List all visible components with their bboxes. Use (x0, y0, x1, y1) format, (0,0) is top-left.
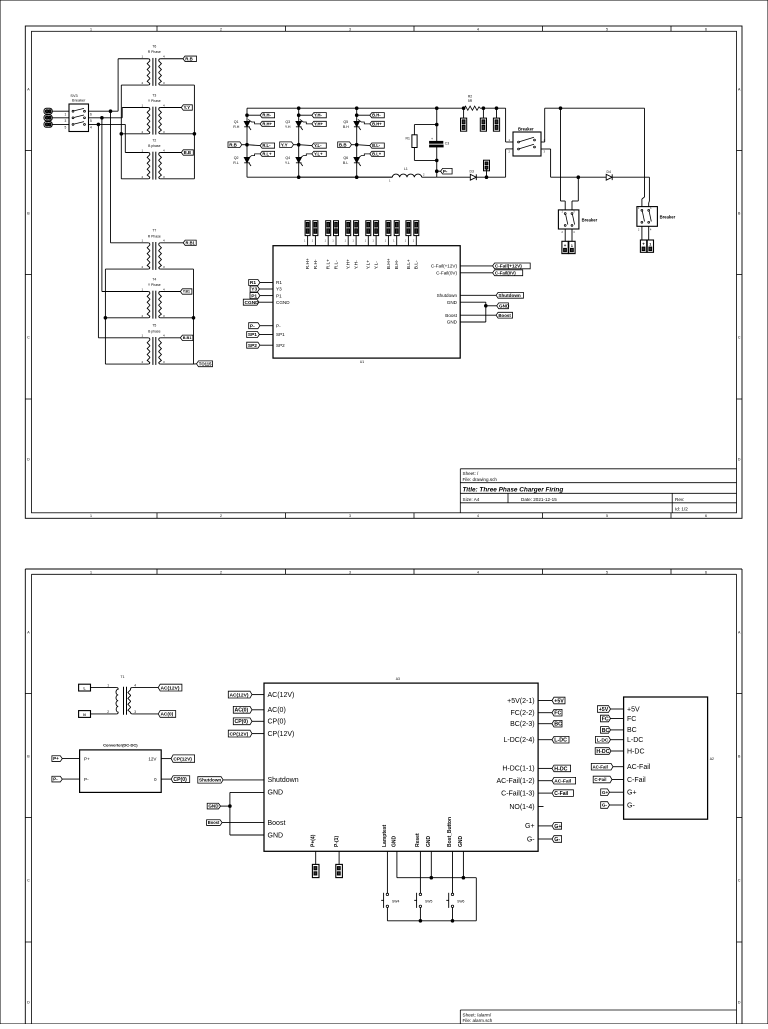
global label SP1 to U1 (247, 332, 260, 338)
svg-text:CP(12V): CP(12V) (268, 731, 295, 738)
global label Shutdown (496, 292, 523, 298)
svg-text:AC-Fail(1-2): AC-Fail(1-2) (496, 778, 534, 785)
connector above U1 pin B.L+ (406, 221, 411, 236)
global label G+ to A2 (601, 789, 610, 796)
global label R1 to U1 (249, 280, 260, 286)
svg-text:P-: P- (250, 323, 255, 329)
svg-text:FC: FC (602, 716, 609, 722)
svg-text:Y.Y: Y.Y (184, 105, 191, 110)
svg-text:4: 4 (477, 514, 479, 518)
wire bank2 left vertical (104, 269, 106, 364)
wire bridge rail B middle (356, 127, 358, 157)
svg-text:5: 5 (90, 119, 92, 123)
svg-text:12V: 12V (148, 756, 157, 761)
svg-text:SP1: SP1 (276, 332, 285, 337)
global label G- to A2 (601, 802, 610, 809)
svg-text:SW6: SW6 (457, 899, 464, 903)
svg-text:Rev:: Rev: (675, 497, 684, 502)
svg-text:SP2: SP2 (248, 343, 257, 349)
svg-text:D: D (27, 457, 30, 461)
wire CB2 out top (541, 141, 545, 143)
wire bank1 left vertical (120, 85, 122, 179)
wire bridge rail R upper (246, 108, 248, 121)
svg-text:L1: L1 (404, 167, 408, 171)
hier label R phase input (228, 142, 242, 148)
wire T6 pin4 to label (160, 58, 183, 60)
svg-text:Shutdown: Shutdown (199, 778, 221, 783)
connector battery B1- (569, 241, 575, 253)
wire DC- through D4 (578, 176, 606, 178)
switch SW6 (451, 893, 453, 895)
svg-text:R2: R2 (468, 94, 472, 98)
svg-text:P-(1): P-(1) (334, 836, 340, 847)
svg-text:Converter(DC-DC): Converter(DC-DC) (103, 743, 138, 748)
connector above U1 pin Y.H+ (346, 221, 351, 236)
wire D3 to connector node (476, 176, 505, 178)
wire Y input to breaker (52, 117, 69, 119)
wire bank2 right vertical (193, 269, 195, 364)
svg-text:D3: D3 (470, 170, 474, 174)
global label CGND to U1 (243, 299, 259, 305)
svg-text:BC: BC (627, 727, 637, 734)
svg-text:3: 3 (349, 570, 351, 574)
svg-text:B phase: B phase (148, 329, 161, 333)
svg-text:R1: R1 (406, 137, 410, 141)
svg-text:6: 6 (705, 570, 707, 574)
svg-text:GND: GND (499, 303, 510, 308)
svg-text:Y.Y: Y.Y (281, 142, 288, 147)
svg-text:4: 4 (477, 27, 479, 31)
svg-text:File: alarm.sch: File: alarm.sch (463, 1018, 493, 1023)
svg-text:C-Fail: C-Fail (554, 791, 569, 797)
hier label R.L+ gate (248, 154, 260, 158)
global label H-DC from A3 (552, 765, 571, 772)
svg-text:6: 6 (705, 514, 707, 518)
svg-text:SW5: SW5 (425, 899, 432, 903)
svg-text:5: 5 (65, 126, 67, 130)
svg-text:T6: T6 (152, 45, 156, 49)
svg-text:BC(2-3): BC(2-3) (510, 721, 535, 728)
svg-text:GND: GND (447, 300, 458, 305)
svg-text:NO(1-4): NO(1-4) (509, 804, 534, 811)
wire Y.L- connector to U1 (375, 236, 377, 246)
svg-text:Y.L+: Y.L+ (366, 260, 372, 270)
wire B phase down to T2 (124, 124, 126, 152)
wire bottom bus to L1 (357, 176, 393, 178)
svg-text:C-Fail(+12V): C-Fail(+12V) (431, 264, 458, 269)
capacitor C3 (436, 125, 438, 142)
svg-text:R.L+: R.L+ (262, 151, 272, 156)
svg-text:AC(0): AC(0) (235, 708, 249, 714)
svg-text:+5V: +5V (627, 706, 640, 713)
hier label Y.L+ gate (300, 154, 312, 158)
wire top bus R2 to J6 (483, 107, 506, 109)
svg-text:P+: P+ (84, 756, 90, 761)
sheet 2 title block (460, 1009, 736, 1011)
svg-text:3: 3 (349, 514, 351, 518)
svg-text:G+: G+ (602, 790, 609, 795)
svg-text:Lamptest: Lamptest (382, 824, 388, 847)
svg-text:P+: P+ (53, 756, 59, 761)
connector N input (79, 711, 91, 718)
wire T6 pin1 (118, 58, 148, 60)
wire T4 pin4 to label (160, 291, 180, 293)
svg-text:Boost: Boost (445, 313, 457, 318)
svg-text:5: 5 (606, 27, 608, 31)
wire DC- to CB3 (577, 176, 580, 179)
wire switch bottom bus (387, 920, 476, 922)
wire bridge rail R middle (246, 127, 248, 157)
svg-text:D: D (738, 457, 741, 461)
svg-text:B.L+: B.L+ (372, 151, 382, 156)
hier label B.L- gate return (357, 144, 370, 147)
global label H-DC to A2 (595, 748, 611, 755)
wire R phase from breaker (89, 110, 119, 112)
svg-text:GND: GND (447, 320, 458, 325)
svg-text:Q1: Q1 (234, 120, 239, 124)
wire B input to breaker (52, 123, 69, 125)
wire T3 pin4 to label (160, 107, 181, 109)
svg-text:C: C (738, 878, 741, 882)
svg-text:CP(0): CP(0) (173, 777, 187, 783)
connector above U1 pin R.H- (313, 221, 318, 236)
global label GND (497, 303, 509, 309)
svg-text:G+: G+ (554, 824, 561, 830)
connector above U1 pin B.H+ (386, 221, 391, 236)
svg-text:+5V(2-1): +5V(2-1) (507, 698, 534, 705)
wire bridge rail R lower (246, 163, 248, 177)
thyristor Q6 (354, 157, 360, 162)
sheet 1 border frame (25, 26, 742, 518)
svg-text:Shutdown: Shutdown (437, 293, 458, 298)
svg-text:T1: T1 (121, 675, 125, 679)
svg-text:AC(0): AC(0) (161, 712, 174, 718)
svg-text:R.H-: R.H- (313, 259, 319, 269)
wire DC- down to CB4 (648, 177, 650, 201)
svg-text:3: 3 (349, 27, 351, 31)
wire C3 branch from top bus (436, 108, 438, 124)
wire T7 pin1 (111, 242, 149, 244)
connector above U1 pin Y.H- (354, 221, 359, 236)
global label AC(12V) out (158, 684, 182, 691)
hier label B.H+ gate (358, 119, 370, 124)
global label Y3 to U1 (250, 286, 259, 292)
svg-text:B.B1: B.B1 (183, 335, 193, 340)
global label AC-Fail from A3 (552, 777, 576, 784)
wire SW5 to bus (419, 908, 421, 921)
connector above U1 pin Y.L- (374, 221, 379, 236)
svg-text:C-Fail: C-Fail (594, 777, 606, 782)
svg-text:P-: P- (84, 777, 89, 782)
annunciator block A2 (624, 697, 708, 819)
wire 12V out (161, 758, 171, 760)
wire R input to breaker (52, 110, 69, 112)
hier label R.L- gate return (247, 144, 260, 147)
svg-text:Date: 2021-12-15: Date: 2021-12-15 (521, 497, 557, 502)
wire bridge rail B upper (356, 108, 358, 121)
svg-text:Y3: Y3 (251, 287, 257, 293)
wire B phase down to T5 (97, 124, 99, 337)
wire R.H+ connector to U1 (307, 236, 309, 246)
svg-text:GND: GND (392, 836, 398, 848)
svg-text:CP(12V): CP(12V) (173, 756, 192, 762)
wire T2 pin4 to label (160, 152, 181, 154)
svg-text:SP2: SP2 (276, 343, 285, 348)
firing block U1 (273, 246, 460, 358)
svg-text:B.L-: B.L- (414, 260, 420, 269)
svg-text:P-: P- (53, 777, 58, 782)
svg-text:Breaker: Breaker (582, 218, 598, 223)
svg-text:T7: T7 (152, 229, 156, 233)
wire D4 to CB4 branch (612, 176, 649, 178)
svg-text:GND: GND (208, 804, 219, 809)
svg-text:G+: G+ (627, 790, 637, 797)
svg-text:TO115: TO115 (199, 361, 212, 366)
wire DC- bottom bus (247, 176, 392, 178)
wire L to T1 pin1 (91, 687, 117, 689)
wire R.H- connector to U1 (314, 236, 316, 246)
svg-text:Q4: Q4 (285, 156, 290, 160)
svg-text:Shutdown: Shutdown (268, 777, 299, 784)
connector J7 above D3 (486, 169, 488, 177)
wire DC- up to breaker CB2 (505, 149, 507, 177)
svg-text:G-: G- (527, 836, 535, 843)
hier label B phase input (338, 142, 352, 148)
svg-text:H-DC(1-1): H-DC(1-1) (502, 766, 534, 773)
global label P- to converter (52, 776, 62, 782)
connector above U1 pin R.L+ (326, 221, 331, 236)
svg-text:Q2: Q2 (234, 156, 239, 160)
svg-text:T2: T2 (152, 138, 156, 142)
global label C-Fail(0V) (493, 270, 523, 276)
svg-text:B.L+: B.L+ (406, 259, 412, 269)
svg-text:AC-Fail: AC-Fail (554, 778, 571, 784)
connector J6 (496, 108, 498, 118)
global label AC-Fail to A2 (591, 763, 613, 770)
hier label B.H- gate return (357, 114, 370, 116)
svg-text:R.L-: R.L- (333, 260, 339, 269)
svg-text:2: 2 (220, 570, 222, 574)
wire T5 pin4 to label (160, 337, 180, 339)
breaker CB3 (558, 210, 579, 229)
wire CB4 to battery connectors (641, 226, 643, 240)
global label C-Fail from A3 (552, 790, 573, 797)
wire B.H- connector to U1 (396, 236, 398, 246)
wire bridge rail Y lower (298, 163, 300, 177)
hier label R.H- gate return (247, 114, 260, 116)
global label P- mid (437, 170, 441, 172)
svg-text:+: + (642, 242, 645, 247)
connector battery B2- (647, 240, 653, 252)
wire B phase from breaker (89, 123, 126, 125)
svg-text:FC: FC (554, 711, 561, 717)
wire T7 pin2 pin3 row (105, 268, 148, 270)
svg-text:+: + (431, 137, 433, 141)
wire T6 pin2 (121, 84, 148, 86)
svg-text:CGND: CGND (276, 300, 290, 305)
svg-text:R Phase: R Phase (148, 50, 161, 54)
thyristor Q1 (244, 121, 250, 126)
hier label R.H+ gate (248, 119, 260, 124)
wire branch down to CB3 (559, 107, 562, 110)
global label P+ to converter (52, 756, 62, 762)
svg-text:Shutdown: Shutdown (498, 293, 521, 298)
svg-text:1: 1 (65, 112, 67, 116)
svg-text:D4: D4 (607, 170, 611, 174)
svg-text:P-: P- (276, 323, 281, 328)
wire 0 out (161, 778, 171, 780)
switch SW4 (386, 893, 388, 895)
svg-text:B.H+: B.H+ (372, 121, 382, 126)
connector above U1 pin R.L- (334, 221, 339, 236)
connector P2 input Y (44, 115, 52, 121)
connector J4 (463, 108, 465, 118)
svg-text:B.H+: B.H+ (386, 258, 392, 269)
thyristor Q5 (354, 121, 360, 126)
connector battery B2+ (640, 240, 646, 252)
thyristor Q4 (296, 157, 302, 162)
wire B.L+ connector to U1 (407, 236, 409, 246)
global label CP(0) to A3 (233, 718, 252, 725)
hier label T5 output (180, 335, 193, 340)
hier label T2 output (181, 150, 193, 155)
hier label T6 output (183, 56, 197, 61)
svg-text:4: 4 (477, 570, 479, 574)
svg-text:5R: 5R (468, 99, 473, 103)
svg-text:P-: P- (443, 169, 448, 174)
wire DC+ down to breaker CB2 (505, 108, 507, 142)
svg-text:R.H+: R.H+ (305, 258, 311, 269)
wire bridge rail Y upper (298, 108, 300, 121)
thyristor Q2 (244, 157, 250, 162)
svg-text:R.B1: R.B1 (186, 240, 196, 245)
svg-text:D: D (738, 1000, 741, 1004)
svg-text:Size: A4: Size: A4 (463, 497, 480, 502)
svg-text:C-Fail(+12V): C-Fail(+12V) (495, 264, 522, 269)
svg-text:1: 1 (90, 514, 92, 518)
global label AC(0) to A3 (233, 706, 252, 713)
connector P3 input B (44, 122, 52, 128)
breaker CB4 (637, 207, 658, 227)
svg-text:P1: P1 (251, 293, 257, 299)
svg-text:T5: T5 (152, 324, 156, 328)
svg-text:Q3: Q3 (285, 120, 290, 124)
global label C-Fail to A2 (593, 776, 612, 783)
svg-text:R.B: R.B (229, 142, 237, 147)
svg-text:L-DC: L-DC (597, 737, 609, 743)
svg-text:C3: C3 (445, 141, 449, 145)
svg-text:C-Fail: C-Fail (627, 777, 646, 784)
svg-text:A2: A2 (710, 757, 714, 761)
wire T1 pin3 to AC(0) (132, 713, 158, 715)
svg-text:+: + (564, 243, 567, 248)
alarm block A3 (264, 683, 538, 851)
svg-text:Y.H-: Y.H- (354, 260, 360, 269)
svg-text:CP(0): CP(0) (235, 719, 249, 725)
wire B.H+ connector to U1 (387, 236, 389, 246)
svg-text:1: 1 (90, 570, 92, 574)
svg-text:R.H: R.H (233, 125, 240, 129)
wire Y.H- connector to U1 (355, 236, 357, 246)
svg-text:B.H-: B.H- (394, 259, 400, 269)
svg-text:Y.B1: Y.B1 (183, 290, 190, 294)
svg-text:T4: T4 (152, 277, 156, 281)
svg-text:0: 0 (154, 777, 157, 782)
svg-text:C-Fail(1-3): C-Fail(1-3) (501, 790, 534, 797)
svg-text:Breaker: Breaker (518, 127, 534, 132)
global label G+ from A3 (552, 823, 562, 830)
svg-text:R.H+: R.H+ (262, 121, 272, 126)
wire T6 pin3 (160, 84, 194, 86)
svg-text:G-: G- (627, 802, 635, 809)
wire Y phase from breaker (89, 117, 123, 119)
svg-text:Bost_Button: Bost_Button (447, 817, 453, 847)
svg-text:Boost: Boost (498, 313, 511, 318)
connector above U1 pin Y.L+ (366, 221, 371, 236)
wire B.L- connector to U1 (415, 236, 417, 246)
global label +5V from A3 (552, 697, 565, 704)
svg-text:Y.H: Y.H (285, 125, 291, 129)
svg-text:6: 6 (705, 27, 707, 31)
wire CB2 out bottom (541, 148, 551, 150)
svg-text:Boost: Boost (268, 820, 286, 827)
svg-text:Sheet: /alarm/: Sheet: /alarm/ (463, 1012, 492, 1017)
global label C-Fail(+12V) (493, 263, 531, 269)
svg-text:Y Phase: Y Phase (148, 99, 161, 103)
svg-text:GND: GND (458, 836, 464, 848)
svg-text:C-Fail(0V): C-Fail(0V) (495, 270, 516, 275)
svg-text:AC(12V): AC(12V) (230, 692, 249, 698)
svg-text:T3: T3 (152, 93, 156, 97)
svg-text:P+(4): P+(4) (310, 834, 316, 847)
hier label T4 output (180, 289, 192, 294)
hier label Y.H- gate return (299, 114, 312, 116)
svg-text:G-: G- (554, 837, 560, 843)
connector above U1 pin B.L- (414, 221, 419, 236)
svg-text:Y.H+: Y.H+ (346, 259, 352, 269)
wire Y phase down to T4 (101, 118, 103, 292)
svg-text:FC: FC (627, 716, 636, 723)
wire R phase down to T7 (110, 111, 112, 243)
wire GND U-link (229, 792, 231, 835)
global label P- to U1 (249, 323, 260, 329)
global label G- from A3 (552, 836, 562, 843)
svg-text:C: C (27, 878, 30, 882)
wire R phase up to T6 (117, 59, 119, 111)
connector L input (79, 684, 91, 691)
hier label T3 output (181, 105, 192, 110)
connector P1 input R (44, 108, 52, 114)
svg-text:R1: R1 (276, 280, 282, 285)
wire Y.L+ connector to U1 (367, 236, 369, 246)
wire N to T1 pin2 (91, 713, 117, 715)
wire SW6 to bus (452, 908, 454, 921)
svg-text:B.B: B.B (184, 150, 191, 155)
svg-text:AC-Fail: AC-Fail (627, 764, 651, 771)
wire T5 pin2 pin3 row (105, 363, 148, 365)
svg-text:GND: GND (426, 836, 432, 848)
global label P1 to U1 (250, 293, 260, 299)
wire T2 pin1 (125, 152, 148, 154)
svg-text:H-DC: H-DC (554, 766, 567, 772)
svg-text:AC(12V): AC(12V) (161, 685, 180, 691)
wire R.L+ connector to U1 (327, 236, 329, 246)
svg-text:4: 4 (134, 684, 136, 688)
global label CP(12V) to A3 (228, 730, 252, 737)
svg-text:2: 2 (220, 27, 222, 31)
svg-text:R Phase: R Phase (148, 234, 161, 238)
sheet 2 border frame (25, 568, 742, 570)
